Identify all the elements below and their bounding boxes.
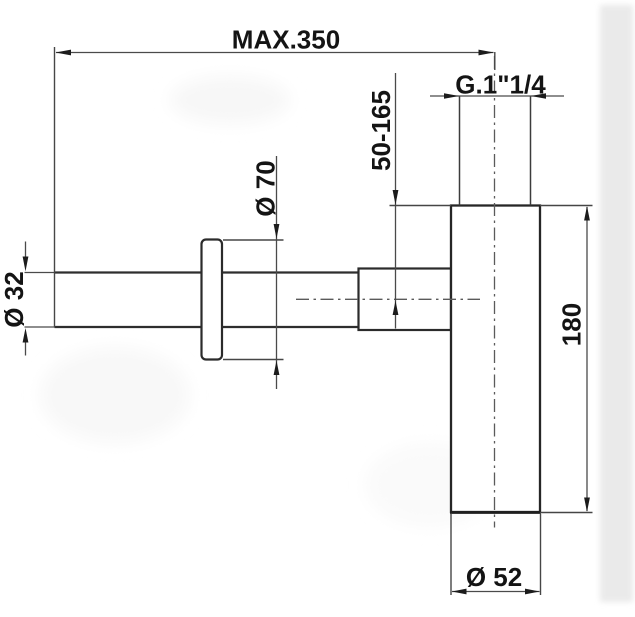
vertical centerline of body (494, 56, 496, 528)
arrow MAX.350 right (479, 50, 495, 56)
dimension 50-165 line (continuous) (395, 73, 397, 329)
body bottom heavy line (450, 511, 541, 514)
dimension O32 lower leader (25, 343, 27, 356)
body top extension line to the right (540, 205, 593, 207)
svg-text:Ø 32: Ø 32 (0, 271, 29, 327)
arrow O70 down (tip on flange top) (274, 224, 280, 239)
svg-text:Ø 52: Ø 52 (466, 562, 522, 592)
horizontal waste pipe O32 bottom edge (55, 326, 359, 328)
dimension G.1"1/4 line (430, 95, 564, 97)
inlet pipe G1"1/4 left edge (459, 96, 461, 206)
wire: pipe top extension stub (left of pipe end) (25, 272, 56, 274)
arrow O52 right (525, 589, 540, 595)
arrow O32 down (tip on pipe top) (23, 257, 29, 272)
arrow 50-165 down (tip on body top line) (393, 190, 399, 205)
dimension O70 line (continuous) (276, 156, 278, 389)
scan shading band right edge (600, 5, 633, 602)
flange bottom extension stub (223, 359, 284, 361)
dimension 180 line (586, 207, 588, 511)
wall flange O70 (202, 240, 223, 360)
arrow G dim right (points left) (531, 93, 546, 99)
pipe left end cap + MAX.350 extension line (54, 47, 56, 328)
arrow MAX.350 left (56, 50, 72, 56)
svg-text:180: 180 (557, 303, 587, 346)
body top extension line to the left (390, 205, 452, 207)
svg-text:50-165: 50-165 (366, 90, 396, 171)
arrow 180 down (584, 498, 590, 513)
trap body cup O52 (451, 206, 540, 513)
dimension MAX.350 line (56, 52, 494, 54)
arrow 180 up (584, 206, 590, 221)
arrow O32 up (tip on pipe bottom) (23, 328, 29, 343)
wire: pipe bottom extension stub (25, 326, 56, 328)
svg-text:MAX.350: MAX.350 (232, 25, 340, 55)
horizontal waste pipe O32 top edge (55, 271, 359, 273)
compression nut / connector (359, 269, 452, 331)
O52 extension line left (450, 514, 452, 595)
horizontal centerline of waste pipe (296, 298, 480, 300)
svg-text:Ø 70: Ø 70 (251, 160, 281, 216)
body bottom extension line to the right (540, 512, 593, 514)
dimension O52 line (452, 591, 540, 593)
dimension O32 upper leader (25, 242, 27, 257)
arrow O52 left (452, 589, 467, 595)
solid stub of centerline below MAX.350 arrow (494, 52, 496, 70)
arrow O70 up (tip on flange bottom) (274, 361, 280, 375)
O52 extension line right (540, 514, 542, 595)
inlet pipe G1"1/4 right edge (530, 96, 532, 206)
faint scan blobs (170, 76, 290, 124)
arrow 50-165 up (tip on pipe centerline) (393, 301, 399, 315)
arrow G dim left (points right) (444, 93, 459, 99)
flange top extension stub (223, 239, 284, 241)
svg-text:G.1"1/4: G.1"1/4 (455, 70, 546, 100)
